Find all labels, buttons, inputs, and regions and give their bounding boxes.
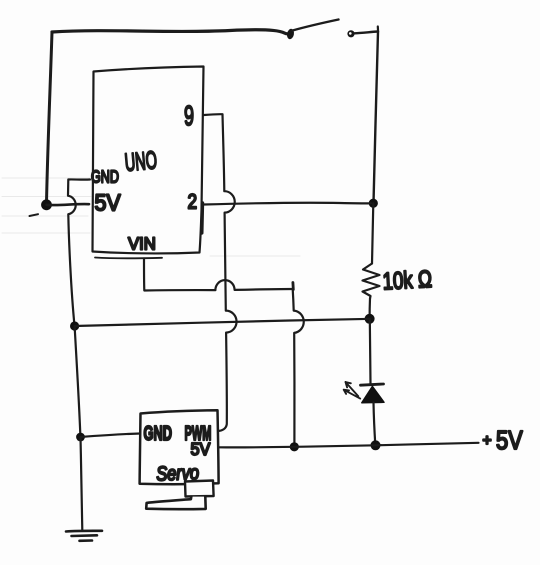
node: junction dot GND wire / mid wire — [70, 321, 79, 330]
wire pin2 node down to resistor — [372, 203, 373, 263]
switch S1 — [286, 20, 378, 40]
wire pin2 horizontal — [204, 203, 371, 205]
wire VIN down and right to +5V vertical — [144, 259, 293, 291]
svg-text:5V: 5V — [95, 190, 121, 216]
wire mid node down to LED — [369, 319, 372, 384]
wire GND pin bracket down left side — [68, 179, 90, 325]
wire down to ground symbol — [81, 437, 83, 531]
wire left rail — [47, 32, 53, 203]
svg-text:UNO: UNO — [124, 147, 158, 177]
node: junction dot 5V pin / left rail — [41, 199, 52, 210]
wire corner overshoot tick — [291, 283, 294, 290]
svg-text:5V: 5V — [191, 439, 211, 459]
node: junction dot LED/+5V rail — [371, 440, 381, 450]
wire stray tick left of 5V node — [30, 214, 39, 216]
wire pin9 stub and vertical down to servo PWM — [204, 114, 237, 431]
ground — [66, 531, 102, 541]
wire GND vertical continues down — [75, 326, 81, 437]
wire servo 5V pin to +5V rail — [219, 443, 479, 448]
node: junction dot servo-5V wire — [290, 442, 299, 451]
wire bottom-left rail to servo GND — [81, 434, 141, 438]
svg-text:10k Ω: 10k Ω — [382, 266, 433, 295]
resistor R1 10k ohm — [363, 264, 380, 299]
servo box — [140, 410, 219, 484]
svg-text:5V: 5V — [496, 426, 523, 455]
servo horn — [146, 497, 206, 510]
wire LED anode to +5V rail — [374, 403, 376, 445]
node: junction dot pin2/switch — [369, 199, 378, 208]
wire 5V pin to left rail — [47, 204, 90, 205]
LED D1 — [344, 382, 384, 403]
svg-text:2: 2 — [188, 191, 198, 214]
svg-text:+: + — [483, 433, 492, 450]
wire mid horizontal (GND junction to resistor junction) — [75, 319, 370, 326]
wire vertical down right of servo to +5V rail — [293, 289, 304, 446]
UNO box right edge overdraw — [200, 203, 204, 233]
wire top rail — [52, 30, 288, 34]
svg-text:VIN: VIN — [128, 233, 156, 254]
svg-text:GND: GND — [144, 422, 172, 445]
node: junction dot resistor/LED/mid-wire — [365, 314, 375, 324]
servo shaft housing — [185, 481, 214, 497]
wire resistor bottom to mid node — [369, 299, 372, 319]
svg-text:GND: GND — [91, 167, 119, 187]
UNO box bottom double stroke — [95, 257, 162, 260]
node: junction dot GND wire / bottom-left rail — [76, 433, 85, 442]
svg-text:9: 9 — [184, 100, 194, 131]
UNO box — [93, 67, 204, 254]
wire right vertical from switch to pin-2 node — [374, 32, 379, 204]
